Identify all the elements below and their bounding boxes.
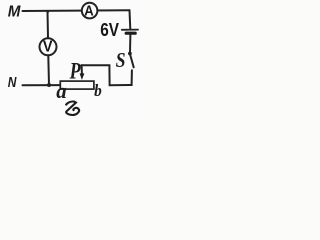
wire voltmeter branch top [47,11,50,38]
svg-text:a: a [56,78,67,103]
svg-text:M: M [8,3,22,20]
svg-text:6V: 6V [100,20,119,41]
battery short thick plate [126,32,135,35]
svg-text:S: S [116,50,126,73]
svg-text:N: N [8,74,18,91]
rheostat body [60,81,94,89]
junction dot on N wire [47,83,51,87]
svg-text:b: b [94,83,102,101]
wire top M to top-right corner [23,9,130,12]
wire switch lower contact down to corner and U across to slider [81,65,132,85]
svg-text:V: V [43,38,53,56]
switch pivot dot [128,52,132,56]
wire voltmeter branch bottom [47,56,50,85]
wire battery to switch pivot [129,35,131,53]
ammeter circle [82,3,98,19]
switch blade [130,55,134,68]
battery long plate [122,29,138,31]
wire right side corner down to battery [129,10,132,29]
figure caption character yi (handwritten 乙) [66,102,79,115]
rheostat slider arrowhead [80,73,85,80]
voltmeter circle [40,38,57,55]
node T-junction tick on top wire [46,10,49,13]
svg-text:A: A [84,3,93,19]
svg-text:P: P [69,60,81,85]
wire bottom N to rheostat [23,84,61,86]
wire slider shaft [81,65,83,73]
